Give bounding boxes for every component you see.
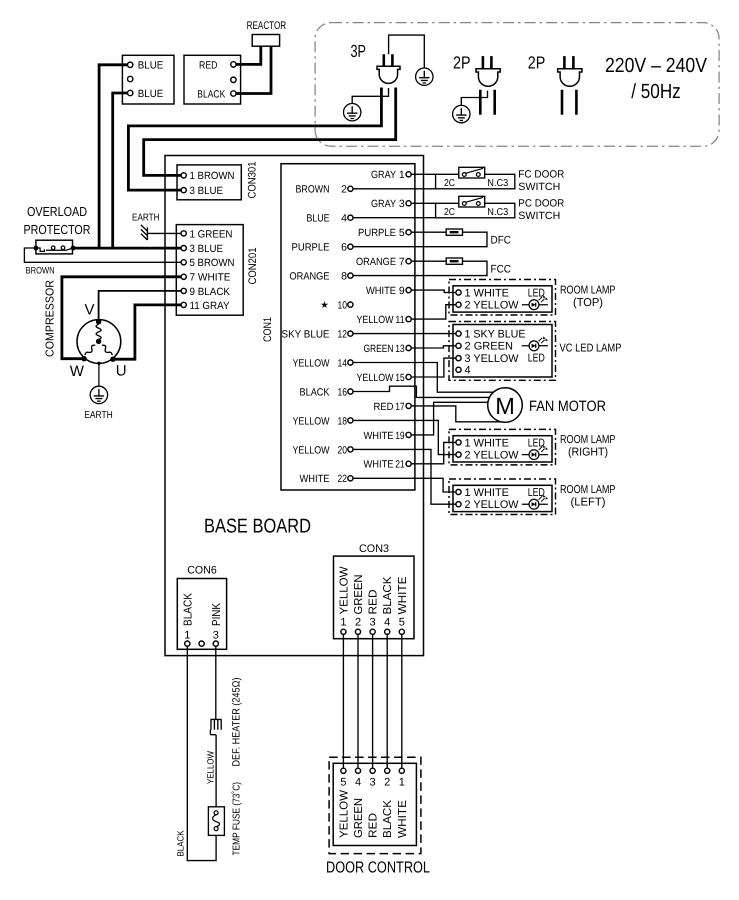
wire CON1 pin3 to PC switch — [409, 202, 436, 204]
room lamp (top) outer dash-dot box — [449, 280, 556, 316]
room lamp (right) LED symbol — [522, 445, 548, 459]
svg-text:17: 17 — [395, 401, 405, 413]
svg-text:★: ★ — [320, 300, 329, 311]
wire CON1 pin13 to VC lamp pin2 — [409, 346, 456, 348]
svg-text:GREEN: GREEN — [353, 798, 365, 838]
2P plug P1 legs — [480, 90, 494, 115]
svg-text:YELLOW: YELLOW — [338, 566, 350, 614]
svg-text:5: 5 — [340, 777, 346, 789]
svg-text:22: 22 — [338, 473, 348, 485]
svg-text:CON201: CON201 — [247, 248, 259, 285]
svg-text:4: 4 — [384, 616, 390, 628]
compressor winding V-center — [96, 324, 101, 339]
svg-text:V: V — [85, 302, 95, 319]
svg-text:BLACK: BLACK — [382, 576, 394, 614]
svg-text:2 YELLOW: 2 YELLOW — [465, 300, 520, 312]
room lamp (left) inner box — [453, 485, 552, 511]
svg-text:7 WHITE: 7 WHITE — [190, 272, 231, 284]
VC LED lamp inner box — [453, 325, 552, 378]
wire CON1 pin5 through DFC fuse to pin6 — [350, 232, 487, 247]
terminal block TB1 pins — [128, 62, 133, 67]
svg-text:(RIGHT): (RIGHT) — [568, 447, 608, 459]
svg-text:5 BROWN: 5 BROWN — [190, 257, 235, 269]
room lamp (left) pin1 — [456, 489, 461, 494]
wire CON1 pin4 to PC switch return — [350, 217, 435, 219]
svg-text:2 YELLOW: 2 YELLOW — [465, 499, 520, 511]
svg-text:9: 9 — [399, 285, 405, 297]
wire 3P plug earth pin to earth E2 — [352, 88, 388, 103]
room lamp (left) outer dash-dot box — [449, 479, 556, 515]
svg-text:2C: 2C — [444, 207, 455, 218]
FCC thermal fuse body — [446, 258, 462, 264]
svg-text:FAN MOTOR: FAN MOTOR — [529, 398, 606, 415]
svg-text:BROWN: BROWN — [296, 184, 330, 196]
door control pins 5-1 — [341, 768, 346, 773]
wire 2P plug P1 to earth E3 — [461, 91, 487, 106]
svg-text:GREEN: GREEN — [353, 575, 365, 615]
svg-text:EARTH: EARTH — [132, 212, 160, 223]
svg-text:3: 3 — [370, 616, 376, 628]
svg-text:4: 4 — [465, 365, 471, 377]
2P plug P2 prongs — [564, 56, 573, 69]
svg-text:CON301: CON301 — [247, 162, 259, 199]
svg-text:(TOP): (TOP) — [573, 297, 603, 309]
svg-text:WHITE: WHITE — [364, 459, 394, 471]
terminal block TB2 pins — [231, 62, 236, 67]
svg-text:1 BROWN: 1 BROWN — [190, 170, 235, 182]
PC door switch contact box — [459, 196, 485, 207]
svg-text:19: 19 — [395, 430, 405, 442]
svg-text:3: 3 — [370, 777, 376, 789]
svg-text:1: 1 — [184, 630, 190, 642]
wire CON1 pin18 to room lamp right pin2 — [350, 420, 456, 454]
svg-text:RED: RED — [368, 590, 380, 615]
wire 3P plug to earth E1 — [389, 35, 425, 68]
svg-text:2: 2 — [355, 616, 361, 628]
svg-text:BLUE: BLUE — [138, 60, 164, 72]
wire CON1 pin14 to fan motor — [350, 363, 493, 393]
connector CON6 box — [177, 579, 226, 650]
svg-text:1 GREEN: 1 GREEN — [190, 228, 233, 240]
wire CON1 pin7 through FCC fuse to pin8 — [350, 261, 487, 275]
svg-text:9 BLACK: 9 BLACK — [190, 286, 231, 298]
svg-text:LED: LED — [528, 437, 545, 449]
compressor motor circle — [77, 320, 121, 364]
wire CON1 pin16 to fan motor — [350, 386, 489, 397]
svg-text:DFC: DFC — [491, 234, 512, 246]
svg-text:WHITE: WHITE — [397, 576, 409, 614]
svg-text:11 GRAY: 11 GRAY — [190, 300, 230, 312]
svg-text:10: 10 — [338, 300, 348, 312]
svg-text:3 YELLOW: 3 YELLOW — [465, 353, 520, 365]
CON1 odd pins 1..21 — [406, 172, 411, 177]
wire CON1 pin11 to room lamp top pin2 — [409, 305, 456, 319]
svg-text:RED: RED — [368, 813, 380, 838]
2P plug P1 body — [476, 69, 500, 86]
wire CON1 pin17 to fan motor — [409, 406, 501, 422]
2P plug P2 body — [558, 69, 582, 87]
FC door switch contacts — [466, 168, 483, 173]
svg-text:2P: 2P — [528, 53, 546, 73]
wire earth to CON201 pin1 — [147, 232, 183, 234]
svg-text:OVERLOAD: OVERLOAD — [27, 204, 87, 219]
svg-text:21: 21 — [395, 459, 405, 471]
svg-text:/ 50Hz: / 50Hz — [631, 80, 681, 103]
room lamp (top) inner box — [453, 286, 552, 312]
svg-text:6: 6 — [341, 242, 347, 254]
svg-text:1 WHITE: 1 WHITE — [465, 437, 510, 449]
svg-text:(LEFT): (LEFT) — [571, 496, 606, 508]
room lamp (top) LED symbol — [522, 295, 548, 309]
svg-text:DEF. HEATER (245Ω): DEF. HEATER (245Ω) — [231, 678, 243, 767]
wire CON6 pin1 (BLACK) to temp fuse loop — [187, 646, 216, 860]
svg-text:GRAY: GRAY — [371, 198, 396, 210]
PC door switch box — [436, 203, 515, 218]
room lamp (top) pin2 — [456, 302, 461, 307]
room lamp (right) outer dash-dot box — [449, 429, 556, 465]
svg-text:3P: 3P — [351, 41, 367, 61]
door control outer dashed box — [329, 757, 421, 853]
svg-text:4: 4 — [341, 213, 347, 225]
svg-text:3 BLUE: 3 BLUE — [190, 243, 224, 255]
wire CON1 pin19 to fan motor — [409, 402, 488, 435]
wire CON201 pin9 to compressor V — [99, 291, 184, 322]
svg-text:18: 18 — [338, 415, 348, 427]
svg-text:TEMP FUSE (73˚C): TEMP FUSE (73˚C) — [230, 782, 242, 856]
room lamp (left) LED symbol — [522, 495, 548, 509]
svg-text:2C: 2C — [444, 178, 455, 189]
svg-text:BLACK: BLACK — [197, 88, 225, 100]
svg-text:M: M — [495, 393, 515, 419]
svg-text:16: 16 — [338, 386, 348, 398]
svg-text:REACTOR: REACTOR — [247, 20, 287, 32]
3P plug prongs — [384, 54, 393, 66]
svg-text:W: W — [70, 363, 85, 380]
svg-text:YELLOW: YELLOW — [293, 415, 330, 427]
svg-text:PURPLE: PURPLE — [358, 227, 396, 239]
svg-text:VC LED LAMP: VC LED LAMP — [560, 342, 622, 354]
svg-text:WHITE: WHITE — [397, 800, 409, 838]
svg-text:BLACK: BLACK — [183, 593, 195, 626]
svg-text:YELLOW: YELLOW — [293, 357, 330, 369]
svg-text:U: U — [116, 363, 127, 380]
svg-text:WHITE: WHITE — [364, 430, 394, 442]
earth symbol E3 — [453, 105, 470, 122]
svg-text:WHITE: WHITE — [300, 473, 330, 485]
svg-text:ROOM LAMP: ROOM LAMP — [560, 434, 616, 446]
svg-text:PINK: PINK — [211, 603, 223, 626]
CON201 pins 1,3,5,7,9,11 — [181, 231, 186, 236]
svg-text:3 BLUE: 3 BLUE — [190, 185, 224, 197]
svg-text:1 SKY BLUE: 1 SKY BLUE — [465, 329, 526, 341]
svg-text:YELLOW: YELLOW — [338, 790, 350, 838]
wire OLP left terminal to CON201 pin5 (BROWN) — [24, 248, 183, 262]
connector CON301 box — [177, 165, 241, 200]
svg-text:SWITCH: SWITCH — [518, 210, 560, 222]
svg-text:BLACK: BLACK — [176, 831, 186, 857]
FC door switch box — [436, 174, 515, 189]
svg-text:LED: LED — [528, 487, 545, 499]
svg-text:N.C3: N.C3 — [487, 178, 508, 189]
svg-text:ROOM LAMP: ROOM LAMP — [560, 484, 616, 496]
wires CON3 to door control pins — [343, 634, 401, 768]
svg-text:2: 2 — [384, 777, 390, 789]
wire CON1 pin2 to FC switch return — [350, 188, 435, 190]
svg-text:FCC: FCC — [491, 263, 512, 275]
fan motor M circle — [488, 388, 523, 423]
PC door switch contacts — [466, 197, 483, 202]
svg-text:YELLOW: YELLOW — [293, 444, 330, 456]
room lamp (right) pin1 — [456, 440, 461, 445]
FC door switch contact box — [459, 167, 485, 178]
connector CON3 box — [334, 556, 415, 639]
svg-text:YELLOW: YELLOW — [357, 372, 394, 384]
svg-text:BLUE: BLUE — [307, 213, 330, 225]
svg-text:2 YELLOW: 2 YELLOW — [465, 450, 520, 462]
svg-text:YELLOW: YELLOW — [357, 314, 394, 326]
wire 3P plug pin R to CON301 pin1 — [144, 88, 396, 176]
wire CON1 pin20 to room lamp left pin2 — [350, 449, 456, 504]
svg-text:SWITCH: SWITCH — [518, 181, 560, 193]
terminal block TB2 (RED/BLACK) — [184, 55, 241, 104]
svg-text:PROTECTOR: PROTECTOR — [24, 222, 91, 237]
svg-text:BLACK: BLACK — [300, 386, 330, 398]
overload protector bimetal and contacts — [36, 248, 73, 251]
wire CON1 pin12 to VC lamp pin1 — [350, 333, 456, 335]
svg-text:GREEN: GREEN — [364, 343, 394, 355]
wire CON1 pin15 to VC lamp pin3 — [409, 358, 456, 377]
3P plug body — [377, 66, 400, 83]
svg-text:1: 1 — [399, 777, 405, 789]
CON301 pin 3 — [181, 188, 186, 193]
svg-text:ROOM LAMP: ROOM LAMP — [560, 284, 616, 296]
svg-text:FC DOOR: FC DOOR — [518, 169, 564, 181]
earth symbol E1 — [416, 68, 433, 85]
svg-text:20: 20 — [338, 444, 348, 456]
DFC thermal fuse body — [446, 229, 462, 235]
OLP terminal dots — [34, 246, 39, 251]
CON3 pins 1-5 — [341, 629, 346, 634]
wire top BLUE terminal to junction — [99, 65, 130, 248]
CON1 even pins 2..22 — [348, 186, 353, 191]
wire RED terminal to reactor — [233, 46, 260, 64]
svg-text:7: 7 — [399, 256, 405, 268]
svg-text:N.C3: N.C3 — [487, 207, 508, 218]
wire 3P plug pin L to CON301 pin3 — [128, 88, 381, 191]
svg-text:2 GREEN: 2 GREEN — [465, 341, 514, 353]
room lamp (left) pin2 — [456, 502, 461, 507]
compressor winding center-U — [102, 345, 112, 355]
svg-text:12: 12 — [338, 329, 348, 341]
wire CON201 pin11 to compressor U — [113, 305, 184, 359]
overload protector OLP box — [36, 240, 73, 254]
VC LED lamp pins 1-4 — [456, 331, 461, 336]
svg-text:4: 4 — [355, 777, 361, 789]
wire CON201 pin7 to compressor W — [62, 277, 184, 359]
wire BLACK terminal to reactor — [233, 46, 271, 93]
terminal block TB1 (BLUE/BLUE) — [122, 55, 174, 104]
wire CON1 pin21 to room lamp right pin1 — [409, 442, 456, 463]
wire CON6 pin3 (PINK) to def heater — [215, 646, 217, 719]
earth symbol E2 — [344, 104, 361, 121]
svg-text:1 WHITE: 1 WHITE — [465, 287, 510, 299]
svg-text:CON6: CON6 — [187, 564, 217, 576]
svg-text:PC DOOR: PC DOOR — [518, 198, 564, 210]
svg-text:3: 3 — [399, 198, 405, 210]
room lamp (top) pin1 — [456, 290, 461, 295]
svg-text:EARTH: EARTH — [84, 410, 113, 421]
room lamp (right) pin2 — [456, 452, 461, 457]
wire compressor to earth E4 — [98, 363, 100, 386]
svg-text:RED: RED — [199, 59, 218, 71]
wire CON1 pin9 to room lamp top pin1 — [409, 290, 456, 292]
defrost heater element — [210, 719, 221, 806]
svg-text:1: 1 — [340, 616, 346, 628]
svg-text:CON1: CON1 — [262, 317, 274, 342]
VC LED lamp LED symbol — [522, 336, 548, 350]
svg-text:11: 11 — [395, 314, 405, 326]
svg-text:ORANGE: ORANGE — [356, 256, 396, 268]
base board outline — [165, 156, 424, 656]
wire CON1 pin22 to room lamp left pin1 — [350, 478, 456, 492]
2P plug P1 prongs — [483, 56, 492, 69]
mains supply dash-dot enclosure — [315, 23, 719, 147]
svg-text:CON3: CON3 — [359, 543, 389, 555]
svg-text:YELLOW: YELLOW — [206, 751, 216, 784]
svg-text:BLUE: BLUE — [138, 88, 164, 100]
earth chassis symbol (CON201 pin1) — [141, 225, 148, 240]
svg-text:LED: LED — [528, 353, 545, 365]
svg-text:8: 8 — [341, 271, 347, 283]
svg-text:1 WHITE: 1 WHITE — [465, 487, 510, 499]
svg-text:220V – 240V: 220V – 240V — [605, 54, 707, 77]
svg-text:LED: LED — [528, 287, 545, 299]
connector CON1 box — [281, 164, 415, 490]
svg-text:BASE BOARD: BASE BOARD — [204, 515, 311, 537]
temp fuse element — [213, 815, 220, 827]
compressor terminal dots V, center, W, U, earth — [96, 319, 101, 324]
svg-text:GRAY: GRAY — [371, 169, 396, 181]
VC LED lamp outer dash-dot box — [449, 322, 556, 381]
temp fuse box — [208, 807, 224, 836]
svg-text:PURPLE: PURPLE — [292, 242, 330, 254]
CON6 pins 1,2,3 — [185, 641, 190, 646]
earth symbol E4 — [90, 386, 107, 403]
compressor winding center-W — [85, 345, 95, 355]
door control inner box — [333, 763, 416, 845]
svg-text:BROWN: BROWN — [26, 266, 55, 277]
svg-text:WHITE: WHITE — [366, 285, 396, 297]
wire OLP right terminal to CON201 pin3 junction — [73, 247, 184, 250]
svg-text:DOOR CONTROL: DOOR CONTROL — [326, 859, 430, 876]
wire bottom BLUE terminal to junction — [113, 93, 131, 248]
svg-text:15: 15 — [395, 372, 405, 384]
wire CON1 pin1 to FC switch — [409, 173, 436, 175]
svg-text:2: 2 — [341, 184, 347, 196]
svg-text:3: 3 — [213, 630, 219, 642]
svg-text:ORANGE: ORANGE — [290, 271, 330, 283]
svg-text:2P: 2P — [453, 53, 471, 73]
svg-text:BLACK: BLACK — [382, 800, 394, 838]
CON301 pin 1 — [181, 173, 186, 178]
svg-text:RED: RED — [374, 401, 394, 413]
svg-text:5: 5 — [399, 227, 405, 239]
svg-text:5: 5 — [399, 616, 405, 628]
connector CON201 box — [176, 225, 243, 316]
svg-text:13: 13 — [395, 343, 405, 355]
svg-text:SKY BLUE: SKY BLUE — [282, 329, 330, 341]
svg-text:COMPRESSOR: COMPRESSOR — [45, 280, 57, 357]
2P plug P2 legs — [562, 90, 576, 115]
room lamp (right) inner box — [453, 436, 552, 462]
svg-text:14: 14 — [338, 357, 348, 369]
reactor L1 body — [252, 35, 279, 47]
svg-text:1: 1 — [399, 169, 405, 181]
